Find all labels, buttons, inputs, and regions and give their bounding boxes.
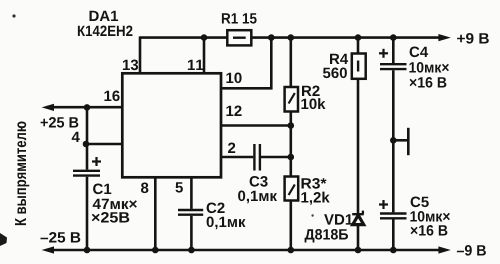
wire R4 bottom to VD1 [357, 79, 360, 215]
label R4 [330, 54, 348, 64]
label C4 value [409, 62, 449, 73]
label 10k [301, 98, 325, 109]
wire common terminal stub [393, 139, 408, 142]
label DA1 [90, 11, 119, 21]
label -9V [457, 245, 486, 256]
capacitor C2 plates [178, 210, 203, 215]
wire pin10 to top rail [220, 38, 271, 89]
arrow +9V [438, 34, 450, 41]
pin number 16 [104, 91, 119, 102]
label C1 value [93, 199, 137, 209]
label C5 value [410, 211, 450, 222]
resistor R4 [352, 54, 366, 79]
capacitor C3 plates [254, 144, 260, 171]
wire C3 to R column [261, 156, 291, 159]
C4 plus sign [379, 49, 388, 58]
wire R3 bottom [289, 201, 292, 251]
resistor R1 [227, 30, 251, 45]
label C4 [410, 47, 429, 58]
label C5 [411, 197, 429, 208]
wire pin16 to +25V arrow [46, 106, 123, 109]
label R3* [302, 178, 327, 189]
label C1 [93, 184, 111, 195]
scan speck top-left [12, 14, 15, 17]
wire C1 column [86, 107, 89, 169]
pin number 10 [226, 73, 241, 84]
label C5 voltage [411, 225, 448, 236]
wire pin2 to C3 [220, 156, 253, 159]
wire pin13 vertical [139, 36, 142, 74]
arrow -25V [42, 246, 54, 253]
label 1,2k [301, 192, 329, 205]
arrow +25V [42, 104, 54, 111]
wire pin12 [220, 124, 291, 127]
label C4 voltage [410, 77, 447, 88]
wire C4 top [392, 38, 395, 64]
pin number 12 [226, 106, 241, 117]
label +25V [41, 117, 79, 128]
capacitor C4 plates [380, 64, 407, 69]
label C3 [250, 176, 268, 187]
pin number 11 [188, 60, 203, 70]
wire R2 top [289, 38, 292, 87]
wire R4 top [357, 38, 360, 54]
label R2 [302, 86, 320, 97]
arrow -9V [438, 246, 450, 253]
terminal bar [407, 128, 410, 155]
wire C1 bottom [86, 177, 89, 250]
pin number 13 [123, 60, 138, 71]
wire pin11 vertical [203, 36, 206, 74]
label K142EH2 [78, 26, 133, 37]
label C3 value [238, 191, 277, 204]
C5 plus sign [379, 200, 388, 209]
pin number 8 [141, 183, 148, 194]
label 560 [323, 68, 347, 79]
wire C5 bottom [392, 219, 395, 250]
resistor R3 [285, 177, 299, 201]
capacitor C1 plates [73, 171, 100, 176]
op-amp/IC DA1 body [122, 73, 221, 177]
arrows [42, 34, 451, 254]
wire R2 bottom to R3 top [289, 112, 292, 177]
pin number 5 [176, 182, 183, 192]
label R1 15 [222, 13, 257, 23]
label C2 value [207, 217, 246, 230]
capacitor C5 plates [380, 214, 407, 219]
wire top rail +9V [140, 36, 444, 39]
label -25V [41, 232, 81, 243]
wire pin4 [87, 143, 123, 146]
label C2 [207, 203, 225, 214]
wire C2 bottom [190, 216, 193, 250]
wire VD1 to bottom rail [357, 225, 360, 250]
resistor R2 [285, 87, 298, 112]
pin number 4 [72, 132, 80, 142]
scan blob left edge [0, 233, 7, 246]
zener diode VD1 [352, 211, 364, 225]
pin number 2 [228, 143, 235, 154]
scan speck near VD1 [311, 214, 313, 216]
wire bottom rail [46, 249, 444, 252]
C1 plus sign [92, 157, 101, 166]
wire C4 to C5 [392, 70, 395, 212]
label K vypryamitelyu (vertical) [15, 122, 29, 226]
label D818B [305, 229, 348, 243]
wire pin8 [154, 177, 157, 250]
label +9V [457, 33, 489, 44]
label C1 voltage [92, 212, 130, 223]
label VD1 [324, 214, 353, 224]
wire pin5 to C2 [190, 177, 193, 209]
